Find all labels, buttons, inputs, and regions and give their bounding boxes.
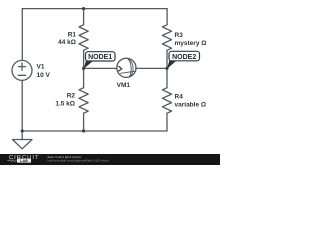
svg-text:R4: R4: [175, 93, 184, 100]
node NODE1 pointer wedge: [84, 61, 94, 69]
wire left rail lower: [21, 80, 23, 131]
junction bottom middle: [82, 129, 85, 132]
wire NODE1 to VM1: [84, 67, 117, 69]
V1 minus sign: [18, 74, 25, 76]
node NODE2 box: [169, 51, 200, 61]
resistor R2 zigzag: [79, 88, 88, 114]
svg-text:1.5 kΩ: 1.5 kΩ: [55, 101, 75, 108]
wire R3 top stub: [166, 9, 168, 25]
wire VM1 to NODE2: [136, 67, 167, 69]
footer bar: [0, 154, 220, 165]
junction bottom left: [21, 129, 24, 132]
wire bottom rail: [22, 130, 167, 132]
ground triangle: [13, 140, 33, 149]
wire top rail: [22, 8, 167, 10]
V1 plus sign: [18, 63, 25, 70]
wire R1 to NODE1: [83, 50, 85, 68]
svg-text:V1: V1: [37, 63, 45, 70]
voltage source V1 circle: [12, 60, 32, 80]
svg-text:R2: R2: [67, 93, 76, 100]
resistor R4 zigzag: [162, 88, 171, 114]
junction NODE2: [165, 67, 168, 70]
node NODE1 box: [86, 52, 116, 61]
junction top: [82, 7, 85, 10]
resistor R3 zigzag: [162, 25, 171, 51]
svg-text:http://circuitlab.com/c/bqjzvp: http://circuitlab.com/c/bqjzvpa8/lab-2-q…: [48, 158, 109, 162]
wire NODE1 to R2: [83, 68, 85, 87]
wire R4 bottom stub: [166, 113, 168, 131]
svg-text:44 kΩ: 44 kΩ: [58, 39, 76, 46]
svg-text:mystery Ω: mystery Ω: [175, 40, 207, 47]
wire R2 bottom stub: [83, 113, 85, 131]
footer logo resistor squiggle: [8, 160, 17, 162]
resistor R1 zigzag: [79, 25, 88, 51]
VM1 dial outer arc: [128, 59, 133, 77]
wire left rail upper: [21, 9, 23, 61]
wire R1 top stub: [83, 9, 85, 25]
svg-text:LAB: LAB: [20, 159, 28, 163]
svg-text:variable Ω: variable Ω: [175, 101, 207, 108]
svg-text:R1: R1: [68, 32, 77, 39]
svg-text:VM1: VM1: [117, 82, 131, 89]
svg-text:NODE2: NODE2: [172, 54, 196, 61]
ground stub: [21, 131, 23, 140]
footer logo LAB box: [17, 159, 31, 163]
svg-text:R3: R3: [175, 32, 184, 39]
wire NODE2 to R4: [166, 68, 168, 87]
junction NODE1: [82, 67, 85, 70]
VM1 polarity mark: [119, 66, 122, 71]
svg-text:NODE1: NODE1: [88, 54, 112, 61]
voltmeter VM1 circle: [117, 58, 136, 77]
VM1 dial inner arc: [128, 59, 131, 77]
node NODE2 pointer wedge: [167, 60, 177, 69]
svg-text:10 V: 10 V: [37, 72, 51, 79]
wire R3 to NODE2: [166, 50, 168, 68]
VM1 needle: [120, 71, 135, 73]
